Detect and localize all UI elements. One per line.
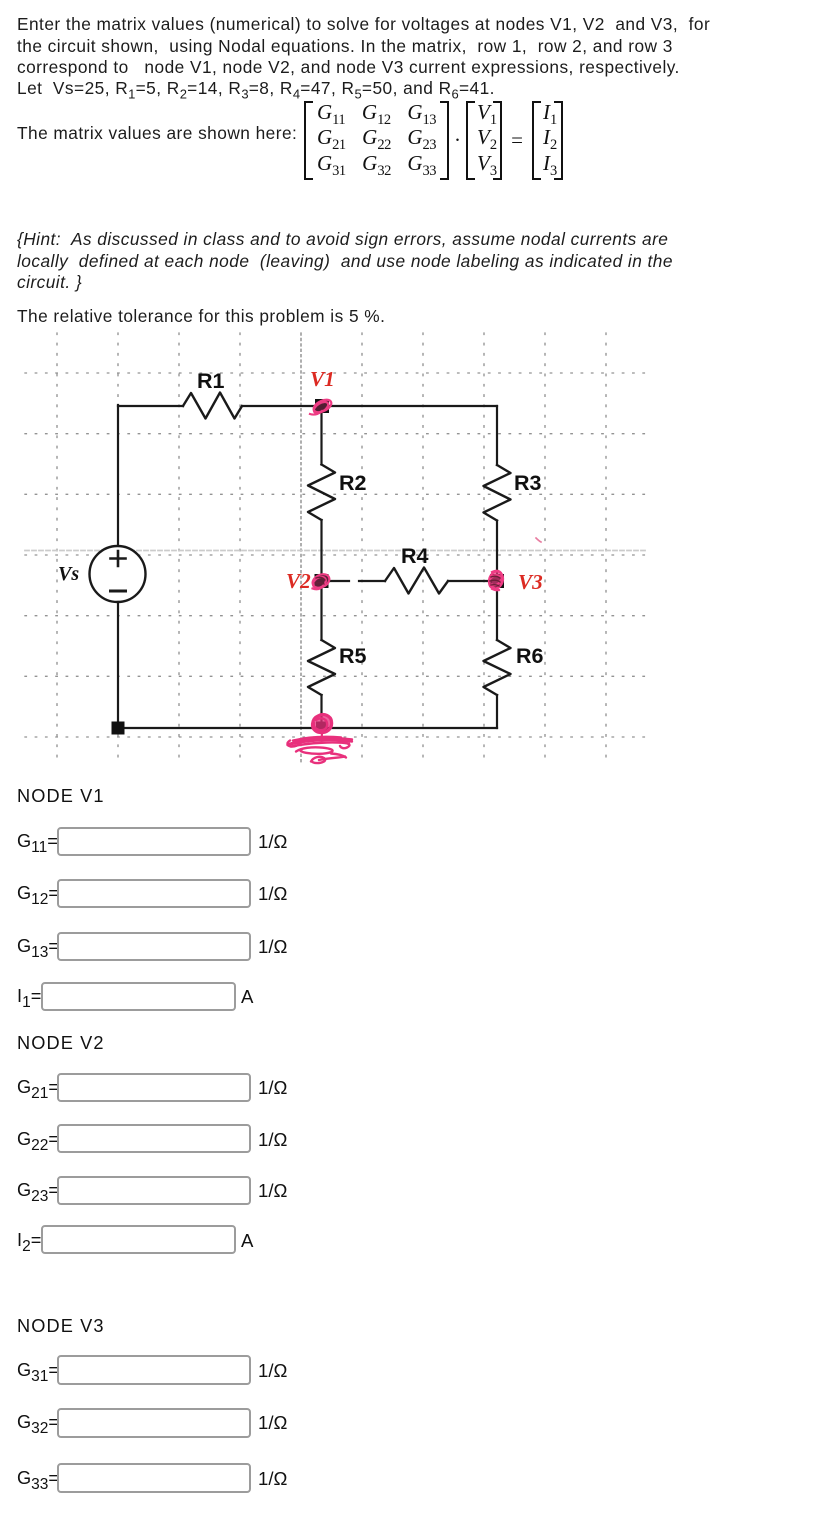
- svg-text:R2: R2: [339, 471, 367, 495]
- pink scribble on node V2: [310, 572, 331, 591]
- resistor R1: [183, 393, 242, 419]
- NODE V3 section: [17, 1316, 105, 1337]
- wire R2 to V2: [320, 520, 322, 581]
- svg-text:R6: R6: [516, 644, 544, 668]
- wire V2 to R4 (with gap): [322, 580, 350, 582]
- ground annotation scribble: [287, 737, 352, 763]
- NODE V2 section: [17, 1033, 105, 1054]
- wire top right: [242, 405, 497, 407]
- node V1: [315, 399, 329, 413]
- wire top left: [118, 405, 183, 407]
- hint paragraph: [17, 229, 673, 293]
- svg-text:R3: R3: [514, 471, 542, 495]
- svg-text:Vs: Vs: [58, 563, 79, 585]
- pink scribble on node V1: [310, 397, 333, 415]
- pink scribble on node V3: [487, 570, 505, 592]
- resistor R5: [308, 640, 335, 695]
- wire V2 to R5: [320, 581, 322, 640]
- wire R6 to bottom: [496, 695, 498, 728]
- svg-text:R4: R4: [401, 544, 429, 568]
- NODE V1 section: [17, 786, 105, 807]
- sheet border dashed vertical line: [300, 333, 302, 762]
- wire left lower: [117, 602, 497, 729]
- problem statement paragraph: [17, 14, 710, 105]
- sheet border dashed horizontal line: [25, 550, 646, 552]
- resistor R2: [308, 465, 335, 521]
- voltage source Vs: [90, 546, 146, 602]
- svg-text:V3: V3: [518, 570, 543, 594]
- svg-text:R5: R5: [339, 644, 367, 668]
- svg-text:V2: V2: [286, 569, 311, 593]
- ground annotation blob: [312, 715, 331, 740]
- pink mark near R3: [536, 538, 541, 542]
- node V2: [315, 574, 329, 588]
- wire R3 to V3: [496, 521, 498, 582]
- svg-text:V1: V1: [310, 367, 335, 391]
- resistor R3: [484, 465, 511, 521]
- resistor R4: [385, 568, 448, 594]
- wire V1 to R2: [320, 406, 322, 465]
- node V3: [490, 574, 504, 588]
- ground junction bottom-left: [112, 722, 125, 735]
- wire left upper: [117, 405, 119, 546]
- matrix equation G*V=I: [304, 101, 563, 180]
- resistor R6: [484, 640, 511, 695]
- wire R4 to V3: [448, 580, 497, 582]
- wire right upper: [496, 406, 498, 465]
- wire V3 to R6: [496, 581, 498, 640]
- wire R5 to ground: [320, 695, 322, 728]
- svg-text:R1: R1: [197, 369, 225, 393]
- ground junction bottom-middle: [316, 722, 327, 733]
